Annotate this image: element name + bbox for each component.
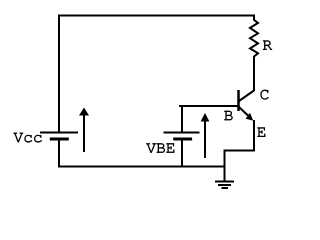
label C [261,90,269,100]
battery VBE [164,133,200,140]
transistor Q1 base bar [237,90,240,111]
transistor Q1 collector diagonal [239,91,254,102]
battery Vcc [40,133,78,140]
ground [215,182,234,189]
label E [257,128,265,137]
wire top horizontal [58,15,255,17]
resistor R [250,20,258,57]
arrow current Vcc [79,108,89,153]
wire left vertical upper [58,15,60,133]
label B [224,111,232,120]
wire base horizontal [179,105,239,107]
wire emitter vertical [253,120,255,152]
transistor Q1 emitter diagonal with arrowhead [239,107,253,121]
wire ground vertical [224,150,226,182]
wire bottom horizontal [58,166,226,168]
wire right vertical top [253,15,255,21]
wire VBE vertical lower [181,139,183,168]
wire emitter horizontal jog [224,150,256,152]
label VBE [146,143,174,152]
wire right vertical to collector [253,56,255,91]
label Vcc [14,133,42,142]
wire VBE vertical upper [181,105,183,133]
arrow current VBE [201,113,210,158]
label R [263,41,272,50]
wire left vertical lower [58,139,60,168]
